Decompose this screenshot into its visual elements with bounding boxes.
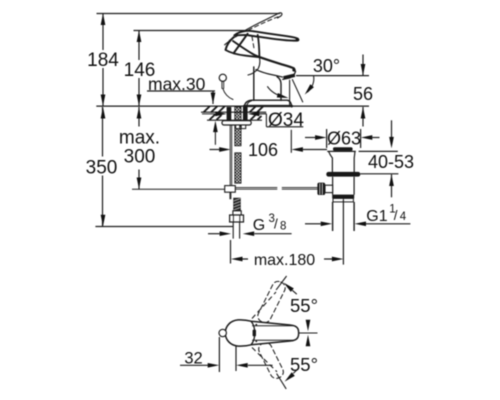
svg-text:40-53: 40-53: [368, 152, 414, 172]
svg-text:max.30: max.30: [148, 74, 206, 94]
svg-text:30°: 30°: [313, 56, 340, 76]
svg-text:/: /: [274, 217, 278, 232]
svg-text:max.180: max.180: [254, 252, 315, 269]
svg-text:32: 32: [184, 350, 202, 368]
svg-text:/: /: [394, 208, 398, 223]
svg-text:G1: G1: [366, 208, 387, 225]
svg-text:max.: max.: [119, 128, 160, 149]
svg-text:55°: 55°: [290, 354, 318, 375]
svg-text:G: G: [253, 217, 265, 234]
svg-text:300: 300: [124, 147, 156, 168]
svg-text:55°: 55°: [290, 295, 318, 316]
svg-text:Ø34: Ø34: [268, 110, 304, 131]
svg-text:4: 4: [400, 211, 407, 223]
svg-text:8: 8: [280, 220, 286, 232]
svg-text:350: 350: [86, 158, 118, 179]
svg-text:106: 106: [248, 140, 278, 160]
svg-text:Ø63: Ø63: [327, 129, 361, 149]
svg-text:56: 56: [353, 84, 373, 104]
svg-text:184: 184: [87, 50, 119, 71]
